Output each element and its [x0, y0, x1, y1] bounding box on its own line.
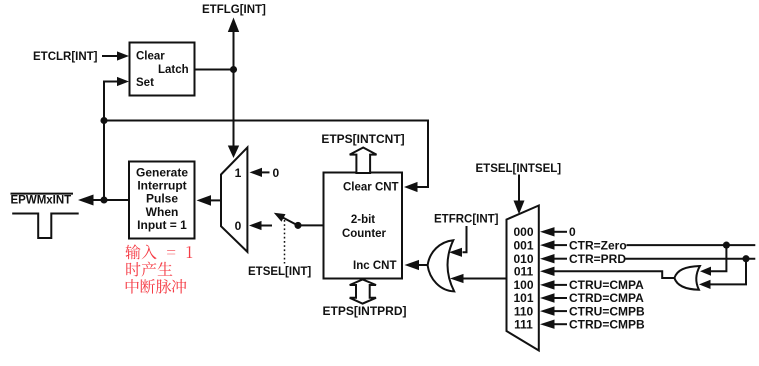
- wire switch to mux M1 input 0: [261, 225, 272, 227]
- switch SW1 pivot node: [294, 222, 301, 229]
- block arrow ETPS[INTPRD] double-headed: [350, 279, 376, 303]
- arrowhead into mux M2 row 100: [540, 280, 555, 289]
- wire constant 0 to mux M1 input 1: [261, 171, 270, 173]
- svg-text:Latch: Latch: [158, 64, 189, 76]
- arrowhead into mux M2 row 011: [540, 267, 555, 276]
- svg-text:CTRU=CMPA: CTRU=CMPA: [569, 278, 644, 292]
- arrowhead ETFRC into G1: [449, 248, 462, 257]
- svg-text:Generate: Generate: [136, 165, 188, 179]
- arrowhead into G2 lower input: [699, 280, 711, 289]
- svg-text:Clear CNT: Clear CNT: [343, 181, 399, 193]
- svg-text:Counter: Counter: [342, 228, 387, 240]
- arrowhead to EPWMxINT: [78, 195, 94, 206]
- wire into row 111: [554, 323, 567, 325]
- svg-text:Set: Set: [136, 77, 154, 89]
- svg-text:ETSEL[INT]: ETSEL[INT]: [248, 266, 311, 278]
- svg-text:1: 1: [235, 166, 242, 180]
- arrowhead into mux M2 row 010: [540, 254, 555, 263]
- svg-text:Interrupt: Interrupt: [137, 179, 186, 193]
- svg-text:011: 011: [514, 265, 534, 279]
- wire into row 000: [554, 231, 567, 233]
- svg-text:2-bit: 2-bit: [351, 214, 375, 226]
- pulse waveform symbol: [12, 214, 79, 239]
- wire mux M1 output to U2: [211, 199, 222, 201]
- or-gate G1: [428, 240, 455, 291]
- wire OR gate G2 output to row 011: [554, 271, 676, 278]
- svg-text:ETPS[INTPRD]: ETPS[INTPRD]: [323, 304, 407, 318]
- arrowhead mux output into G1: [450, 274, 464, 283]
- arrowhead into Set pin: [117, 77, 129, 86]
- wire switch pivot to counter: [298, 224, 323, 226]
- arrowhead into Clear pin: [117, 51, 129, 60]
- svg-text:111: 111: [514, 317, 533, 331]
- wire pulse output vertical: [103, 121, 105, 201]
- arrowhead into mux M2 top: [514, 201, 525, 215]
- svg-text:ETPS[INTCNT]: ETPS[INTCNT]: [321, 132, 404, 146]
- wire into row 110: [554, 310, 567, 312]
- red note line 3: 中断脉冲: [126, 279, 187, 294]
- wire ETFRC to OR gate G1: [463, 226, 467, 252]
- counter U3 2-bit: [324, 173, 403, 279]
- node junction at latch output: [230, 66, 237, 73]
- wire into row 001: [554, 244, 567, 246]
- wire into row 100: [554, 284, 567, 286]
- or-gate G2 (CTR=Zero | CTR=PRD): [674, 266, 700, 290]
- arrowhead into Clear CNT pin: [404, 182, 418, 192]
- svg-text:Input = 1: Input = 1: [137, 218, 187, 232]
- wire ETFLG vertical: [233, 31, 235, 147]
- generate-pulse block U2: [129, 162, 195, 239]
- node junction on CTR=Zero line: [723, 242, 730, 249]
- node junction on CTR=PRD line: [742, 255, 749, 262]
- red note line 1: 输入 = 1: [125, 244, 192, 259]
- wire EPWMxINT output: [93, 199, 129, 201]
- svg-text:CTRU=CMPB: CTRU=CMPB: [569, 304, 645, 318]
- svg-text:CTRD=CMPB: CTRD=CMPB: [569, 317, 645, 331]
- wire ETSEL[INT] dotted control: [284, 220, 286, 264]
- wire into row 010: [554, 258, 567, 260]
- svg-text:0: 0: [569, 225, 576, 239]
- arrowhead into mux M2 row 001: [540, 240, 555, 249]
- arrowhead up to ETFLG: [228, 18, 239, 33]
- svg-text:0: 0: [273, 166, 280, 180]
- arrowhead into mux M1 input 0: [249, 221, 262, 230]
- switch SW1 arm: [283, 217, 298, 225]
- arrowhead into mux M1 input 1: [250, 168, 263, 177]
- wire ETCLR to latch Clear: [102, 55, 118, 57]
- svg-text:0: 0: [235, 219, 242, 233]
- mux M2 (8-to-1 selector): [507, 206, 539, 351]
- svg-text:CTR=Zero: CTR=Zero: [569, 238, 627, 252]
- arrowhead into mux M2 row 111: [540, 320, 555, 329]
- arrowhead into G2 upper input: [700, 267, 711, 276]
- red note line 2: 时产生: [126, 262, 172, 277]
- svg-text:ETFRC[INT]: ETFRC[INT]: [434, 213, 499, 225]
- svg-text:100: 100: [513, 278, 533, 292]
- arrowhead into mux M2 row 101: [540, 293, 555, 302]
- arrowhead into U2 input: [197, 195, 212, 206]
- node junction on feedback wire: [100, 117, 107, 124]
- svg-text:Clear: Clear: [136, 51, 165, 63]
- svg-text:001: 001: [513, 238, 533, 252]
- wire CTR=PRD line to right: [626, 258, 756, 260]
- wire CTR=Zero line to right: [627, 244, 756, 246]
- wire mux M2 output to G1: [463, 278, 507, 280]
- node junction at pulse output: [100, 196, 107, 203]
- label EPWMxINT with overline: [11, 193, 74, 195]
- svg-text:Pulse: Pulse: [146, 192, 178, 206]
- wire CTR=PRD drop to G2 lower input: [711, 259, 747, 285]
- latch U1 Clear/Set: [130, 43, 195, 96]
- arrowhead into Inc CNT pin: [405, 260, 420, 270]
- arrowhead into mux M2 row 000: [540, 227, 555, 236]
- wire into row 101: [554, 297, 567, 299]
- wire latch output to ETFLG node: [195, 69, 234, 71]
- svg-text:EPWMxINT: EPWMxINT: [11, 194, 72, 206]
- svg-text:Inc CNT: Inc CNT: [353, 260, 396, 272]
- svg-text:101: 101: [513, 291, 533, 305]
- wire Set input: [104, 82, 118, 121]
- svg-text:ETFLG[INT]: ETFLG[INT]: [202, 4, 266, 16]
- wire ETSEL[INTSEL] to mux M2: [518, 175, 520, 202]
- svg-text:ETSEL[INTSEL]: ETSEL[INTSEL]: [476, 163, 562, 175]
- svg-text:CTRD=CMPA: CTRD=CMPA: [569, 291, 644, 305]
- mux M1 (1/0 select): [221, 147, 247, 252]
- svg-text:110: 110: [514, 304, 534, 318]
- block arrow ETPS[INTCNT]: [350, 148, 377, 174]
- arrowhead down into mux M1: [228, 146, 239, 159]
- svg-text:CTR=PRD: CTR=PRD: [569, 252, 626, 266]
- wire feedback to Clear CNT: [104, 121, 428, 188]
- wire G1 output: [419, 264, 429, 266]
- svg-text:000: 000: [513, 225, 533, 239]
- svg-text:ETCLR[INT]: ETCLR[INT]: [33, 51, 98, 63]
- svg-text:When: When: [146, 205, 179, 219]
- wire CTR=Zero drop to G2 upper input: [711, 245, 727, 271]
- arrowhead into mux M2 row 110: [540, 306, 555, 315]
